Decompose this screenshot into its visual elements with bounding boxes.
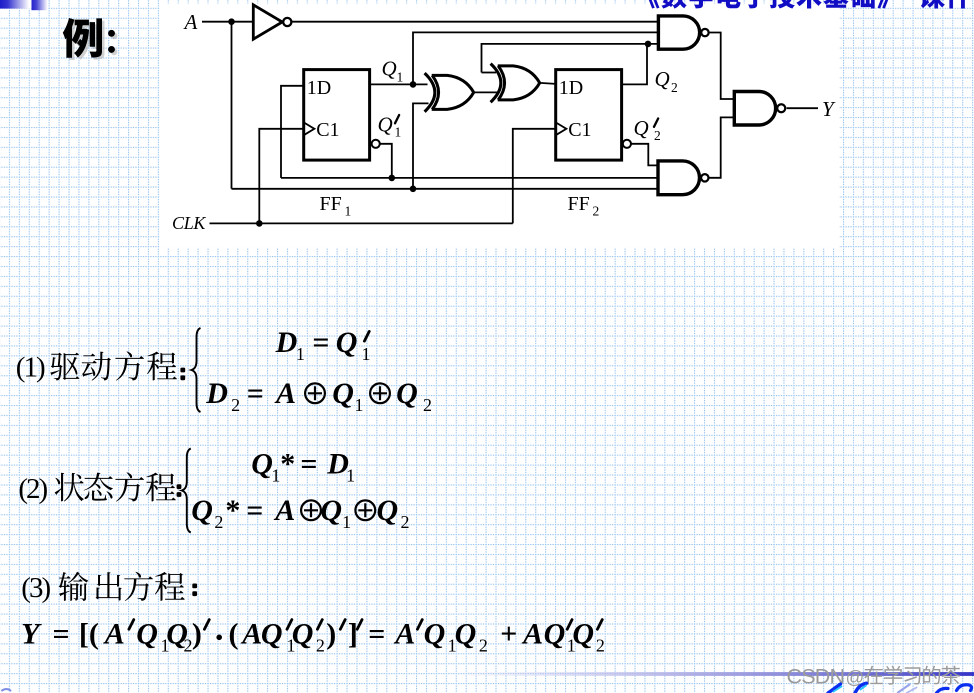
- svg-text:CLK: CLK: [172, 213, 206, 233]
- svg-text:): ): [192, 618, 202, 651]
- nand gate U2: [658, 161, 699, 195]
- circuit panel: [160, 4, 840, 248]
- node A tap: [410, 186, 417, 193]
- wire CLK to FF2 C1: [513, 129, 556, 224]
- wire A vertical drop: [231, 22, 233, 189]
- xor gate X2: [491, 64, 540, 103]
- svg-text:=: =: [246, 494, 263, 527]
- svg-text:=: =: [312, 326, 329, 359]
- svg-text:2: 2: [231, 395, 240, 415]
- svg-text:(2): (2): [18, 473, 47, 505]
- svg-text:1: 1: [395, 125, 402, 140]
- nand gate U3: [734, 92, 775, 126]
- flip-flop FF1: [304, 70, 370, 161]
- svg-text:[: [: [79, 618, 89, 651]
- node CLK junction: [256, 220, 263, 227]
- svg-text:(: (: [229, 618, 239, 651]
- svg-text:1: 1: [355, 395, 364, 415]
- svg-text:A: A: [521, 618, 543, 651]
- svg-text:*: *: [225, 494, 240, 527]
- svg-text:(: (: [89, 618, 99, 651]
- svg-text:Y: Y: [21, 618, 42, 651]
- flip-flop FF2: [556, 70, 622, 161]
- svg-text:Q: Q: [261, 618, 283, 651]
- wire Y output: [787, 107, 818, 109]
- wire Q1 up to NAND1: [413, 32, 658, 84]
- svg-text:1: 1: [362, 344, 371, 364]
- svg-text:1: 1: [271, 466, 280, 486]
- svg-text:1: 1: [397, 70, 404, 85]
- watermark line: [450, 672, 974, 676]
- svg-text:Q: Q: [292, 618, 314, 651]
- svg-text:(3): (3): [21, 572, 50, 604]
- svg-text:=: =: [247, 377, 264, 410]
- svg-text:1: 1: [296, 344, 305, 364]
- svg-text:A: A: [103, 618, 125, 651]
- wire Q2 feedback top: [482, 44, 659, 73]
- svg-text:Q: Q: [634, 116, 649, 140]
- svg-text:Q: Q: [136, 618, 158, 651]
- svg-text:CSDN: CSDN: [787, 665, 845, 689]
- svg-text:1: 1: [342, 512, 351, 532]
- svg-text:(1): (1): [16, 352, 45, 384]
- svg-text:2: 2: [401, 512, 410, 532]
- svg-text:D: D: [275, 326, 298, 359]
- svg-text:*: *: [280, 448, 295, 481]
- wire A tap up to XOR1: [413, 103, 429, 188]
- wire A input: [202, 21, 254, 23]
- svg-text:2: 2: [596, 636, 605, 656]
- eq block 1 brace: [192, 328, 201, 412]
- svg-text:Q: Q: [320, 494, 342, 527]
- svg-text:FF: FF: [568, 193, 590, 215]
- wire XOR2 out to FF2 1D: [540, 83, 556, 84]
- svg-text:2: 2: [479, 636, 488, 656]
- bubble Q2-bar: [623, 140, 631, 148]
- svg-text:2: 2: [423, 395, 432, 415]
- svg-text:Q: Q: [396, 377, 418, 410]
- wire NAND2 out: [708, 117, 734, 177]
- node Q1-bar tap: [389, 175, 396, 182]
- wire Q2-bar to NAND2: [631, 144, 658, 166]
- svg-text:Q: Q: [455, 618, 477, 651]
- svg-text:Q: Q: [382, 57, 397, 81]
- svg-text:2: 2: [654, 128, 661, 143]
- signature scribble: [2, 683, 972, 693]
- eq block 2 brace: [182, 449, 191, 533]
- svg-text:2: 2: [593, 204, 600, 219]
- title 例:: [65, 20, 117, 60]
- svg-text:A: A: [273, 494, 295, 527]
- nand gate U1: [658, 16, 699, 49]
- wire Q1 output: [370, 83, 428, 85]
- svg-text:Q: Q: [332, 377, 354, 410]
- wire Q2 feedback into XOR2: [482, 72, 497, 74]
- deco bar 2: [32, 0, 48, 10]
- wire CLK: [210, 222, 513, 224]
- deco bar 1: [0, 0, 31, 9]
- wire CLK to FF1 C1: [259, 129, 303, 224]
- svg-text:=: =: [53, 618, 70, 651]
- svg-text:Q: Q: [191, 494, 213, 527]
- wire XOR1 out to XOR2: [474, 91, 499, 93]
- wire NAND1 out: [708, 33, 735, 100]
- svg-text:Q: Q: [572, 618, 594, 651]
- svg-text:A: A: [274, 377, 296, 410]
- svg-text:Q: Q: [336, 326, 358, 359]
- svg-text:A: A: [183, 10, 198, 34]
- wire A-bar to NAND1: [291, 21, 658, 23]
- svg-text:): ): [326, 618, 336, 651]
- svg-text:Q: Q: [378, 113, 393, 137]
- node Q2 top junction: [645, 41, 652, 48]
- svg-text:2: 2: [316, 636, 325, 656]
- wire Q1-bar rail: [281, 177, 658, 179]
- svg-text:Q: Q: [544, 618, 566, 651]
- svg-text:D: D: [205, 377, 228, 410]
- inverter G1: [253, 5, 282, 39]
- svg-text:=: =: [368, 618, 385, 651]
- wire A rail: [232, 188, 659, 190]
- svg-text:+: +: [500, 618, 517, 651]
- top banner text: [647, 0, 971, 9]
- svg-text:Q: Q: [424, 618, 446, 651]
- svg-text:FF: FF: [320, 193, 342, 215]
- bubble Q1-bar: [372, 140, 380, 148]
- wire Q2 from FF2: [622, 44, 647, 84]
- svg-text:C1: C1: [316, 119, 339, 141]
- svg-text:Q: Q: [251, 448, 273, 481]
- wire Q1-bar feedback to FF1 1D: [281, 86, 304, 178]
- svg-text:1D: 1D: [559, 77, 583, 99]
- node A junction: [228, 18, 235, 25]
- svg-text:=: =: [300, 448, 317, 481]
- svg-text:]: ]: [348, 618, 358, 651]
- svg-text:Q: Q: [377, 494, 399, 527]
- svg-text:2: 2: [671, 80, 678, 95]
- svg-text:1: 1: [346, 466, 355, 486]
- svg-text:1D: 1D: [307, 77, 331, 99]
- svg-text:A: A: [240, 618, 262, 651]
- svg-text:1: 1: [345, 204, 352, 219]
- wire Q1-bar from bubble: [380, 144, 392, 178]
- svg-text:A: A: [393, 618, 415, 651]
- svg-text:Q: Q: [655, 67, 670, 91]
- svg-text:2: 2: [214, 512, 223, 532]
- node Q1 junction: [410, 81, 417, 88]
- xor gate X1: [425, 73, 474, 112]
- svg-text:C1: C1: [568, 119, 591, 141]
